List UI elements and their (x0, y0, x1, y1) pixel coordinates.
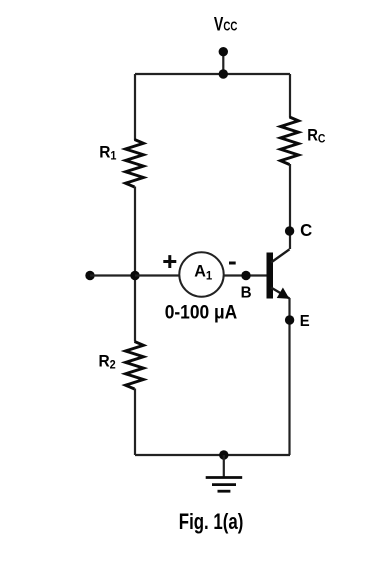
resistor R1 (126, 140, 144, 188)
label Rc (307, 127, 325, 146)
svg-text:E: E (300, 313, 310, 331)
wire ammeter to base (224, 274, 267, 276)
svg-text:RC: RC (307, 127, 325, 146)
svg-text:C: C (300, 219, 313, 240)
node B dot (241, 271, 250, 280)
node left junction dot (130, 271, 139, 280)
wire Rc to collector (289, 164, 291, 249)
wire left middle vertical (134, 187, 136, 342)
wire left lower vertical (134, 389, 136, 456)
node ground junction dot (219, 450, 228, 459)
wire bottom horizontal (135, 454, 290, 456)
node Vcc stub (222, 52, 224, 74)
resistor R2 (126, 342, 144, 390)
wire input to junction (90, 274, 135, 276)
label E (300, 313, 310, 331)
label Vcc (214, 13, 237, 35)
wire ground stub (223, 455, 225, 478)
wire left upper vertical (134, 74, 136, 140)
transistor Q1 collector lead (271, 249, 290, 262)
node left input terminal dot (85, 271, 94, 280)
svg-text:B: B (241, 284, 252, 301)
node C dot (285, 226, 294, 235)
svg-text:Fig. 1(a): Fig. 1(a) (179, 510, 243, 535)
ammeter A1 (179, 252, 223, 296)
wire top horizontal (135, 73, 290, 75)
label plus sign (163, 255, 176, 268)
node Vcc terminal dot (219, 47, 228, 56)
label R2 (99, 352, 116, 372)
wire emitter vertical (288, 298, 290, 455)
label A1 (194, 261, 212, 282)
label R1 (99, 143, 117, 163)
label Fig. 1(a) (179, 510, 243, 535)
label minus sign (229, 262, 236, 265)
label B (241, 284, 252, 301)
node Vcc junction dot (219, 69, 228, 78)
svg-text:R2: R2 (99, 352, 116, 372)
label C (300, 219, 313, 240)
node E dot (285, 315, 294, 324)
transistor Q1 emitter arrow (278, 289, 289, 299)
svg-text:R1: R1 (99, 143, 117, 163)
transistor Q1 emitter lead (271, 288, 290, 299)
wire junction to ammeter (135, 274, 180, 276)
wire right upper vertical (289, 74, 291, 118)
ground (206, 478, 243, 492)
svg-text:VCC: VCC (214, 13, 237, 35)
transistor Q1 base bar (267, 253, 274, 299)
svg-text:0-100 μA: 0-100 μA (165, 302, 237, 323)
resistor Rc (281, 117, 299, 165)
label 0-100 uA (165, 302, 237, 323)
